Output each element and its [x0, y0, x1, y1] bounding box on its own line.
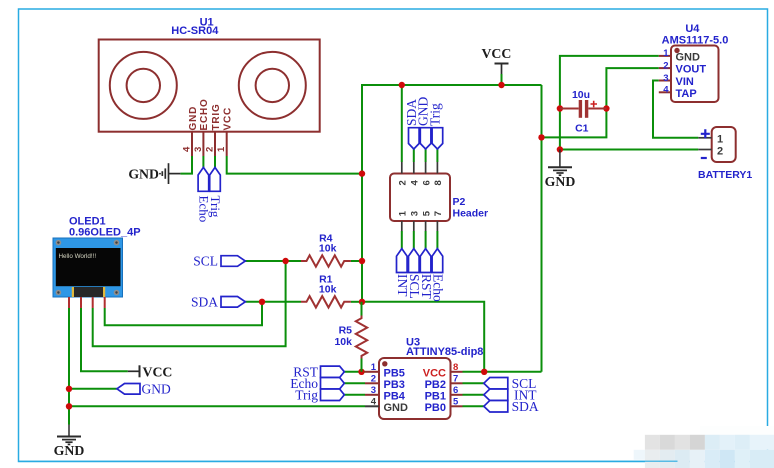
U1 left transducer — [110, 52, 177, 119]
OLED1 screen — [56, 248, 121, 286]
wire U4 pin3 VIN to battery plus — [653, 81, 698, 138]
U1 right transducer — [239, 52, 306, 119]
wire RST flag to U3 pin1 — [344, 371, 365, 373]
junction at bottom GND bus — [66, 403, 72, 409]
svg-text:1: 1 — [717, 133, 723, 145]
wire U1 ECHO pin stub — [202, 156, 204, 167]
P2 pin stub 1 — [401, 221, 403, 231]
wire VCC rail right vertical x=541.5 — [541, 85, 543, 372]
U3 pin stub 2 — [365, 382, 379, 384]
net flag GND above P2 — [416, 97, 431, 149]
svg-text:6: 6 — [421, 180, 432, 185]
svg-text:7: 7 — [453, 373, 458, 384]
svg-text:VCC: VCC — [223, 107, 234, 131]
wire VCC to U3 pin8 via x=484 — [362, 302, 484, 372]
U4 pin stub 2 — [659, 67, 671, 69]
svg-text:Trig: Trig — [295, 387, 318, 402]
svg-text:10k: 10k — [319, 243, 337, 255]
BATTERY1 minus sign — [701, 157, 707, 159]
BATTERY1 plus sign — [701, 129, 710, 138]
OLED1 module body — [53, 238, 123, 297]
svg-text:SCL: SCL — [193, 254, 218, 269]
resistor R1 — [301, 273, 351, 307]
svg-text:ATTINY85-dip8: ATTINY85-dip8 — [406, 346, 483, 358]
watermark mosaic bottom right (decorative) — [634, 426, 774, 468]
wire U3 pin8 row — [463, 371, 542, 373]
svg-text:1: 1 — [663, 48, 669, 59]
svg-text:Trig: Trig — [208, 196, 223, 218]
junction at R5 bottom / U3 pin1 — [358, 369, 364, 375]
U1 pin stub 3 — [202, 132, 204, 156]
svg-text:0.96OLED_4P: 0.96OLED_4P — [69, 227, 141, 239]
wire P2 pin2 to VCC rail — [401, 85, 403, 162]
svg-text:VIN: VIN — [676, 76, 694, 88]
wire SCL net vertical x=285.6 — [93, 261, 286, 346]
U4 body — [671, 46, 719, 103]
U1 pin stub 2 — [214, 132, 216, 156]
svg-text:3: 3 — [410, 211, 421, 216]
wire U1 VCC pin to VCC rail — [227, 156, 362, 174]
svg-text:Echo: Echo — [431, 274, 446, 302]
net flag RST at U3 pin1 — [293, 364, 344, 379]
svg-text:10k: 10k — [334, 336, 352, 348]
svg-text:PB4: PB4 — [384, 390, 406, 402]
svg-text:Header: Header — [453, 207, 489, 219]
svg-text:7: 7 — [433, 211, 444, 216]
svg-text:PB5: PB5 — [384, 367, 405, 379]
svg-text:10k: 10k — [319, 284, 337, 296]
net flag INT at U3 pin6 — [484, 387, 537, 402]
svg-text:8: 8 — [453, 362, 458, 373]
capacitor C1 10u polarized — [560, 89, 607, 135]
junction at SCL flag column — [282, 258, 288, 264]
net flag Echo below P2 — [431, 249, 446, 302]
U4 pin stub 4 — [659, 91, 671, 93]
svg-text:GND: GND — [676, 51, 701, 63]
OLED1 connector block — [74, 287, 103, 297]
net flag INT below P2 — [395, 249, 410, 298]
VCC power symbol near OLED — [128, 364, 173, 379]
U3 pin stub 7 — [451, 382, 463, 384]
wire U1 TRIG pin stub — [214, 156, 216, 167]
svg-text:VOUT: VOUT — [676, 64, 707, 76]
junction at P2 pin2 and VCC rail — [399, 82, 405, 88]
wire Echo flag to U3 pin2 — [344, 382, 365, 384]
C1 plus sign — [591, 101, 598, 108]
ground symbol bottom left — [57, 425, 81, 445]
svg-text:VCC: VCC — [143, 364, 173, 379]
wire SCL flag to R4 — [245, 260, 301, 262]
svg-text:R5: R5 — [339, 325, 353, 337]
net flag SDA above P2 — [404, 99, 419, 149]
svg-text:4: 4 — [410, 180, 421, 186]
svg-text:GND: GND — [54, 443, 85, 458]
wire P2 pin3 flag stub — [413, 231, 415, 249]
svg-text:TAP: TAP — [676, 88, 697, 100]
U4 pin stub 1 — [659, 55, 671, 57]
OLED1 pin stub 3 — [92, 297, 94, 308]
U3 pin stub 3 — [365, 394, 379, 396]
C1 right plate — [585, 100, 588, 118]
microcontroller U3 ATTINY85 — [365, 337, 483, 419]
svg-text:1: 1 — [371, 362, 377, 373]
svg-text:2: 2 — [717, 145, 723, 157]
U3 body — [379, 358, 451, 419]
svg-text:C1: C1 — [575, 123, 589, 135]
wire SDA flag to R1 — [245, 301, 301, 303]
P2 pin stub 8 — [436, 162, 438, 174]
svg-text:2: 2 — [398, 180, 409, 185]
junction at GND near C1 — [557, 146, 563, 152]
net flag Echo under U1 — [197, 167, 212, 222]
ground symbol near C1 — [548, 150, 572, 176]
net flag Echo at U3 pin2 — [290, 376, 344, 391]
junction at VCC symbol stem — [498, 82, 504, 88]
svg-text:OLED1: OLED1 — [69, 215, 106, 227]
OLED1 corner screws — [56, 240, 62, 246]
wire VCC power stem green part — [501, 74, 503, 85]
P2 pin stub 4 — [413, 162, 415, 174]
svg-text:P2: P2 — [453, 196, 466, 208]
bottom border segment visible through watermark — [19, 460, 678, 462]
U3 pin stub 5 — [451, 405, 463, 407]
OLED1 pin stub 4 — [104, 297, 106, 308]
svg-text:U4: U4 — [685, 23, 700, 35]
P2 pin stub 5 — [425, 221, 427, 231]
header P2 — [390, 162, 488, 231]
svg-text:BATTERY1: BATTERY1 — [698, 169, 752, 181]
net flag Trig above P2 — [427, 103, 442, 149]
junction at U1 VCC wire and VCC vertical — [359, 170, 365, 176]
net flag RST below P2 — [419, 249, 434, 300]
OLED1 pin stub 1 — [68, 297, 70, 308]
wire U3 pin6 to INT flag — [463, 394, 487, 396]
regulator U4 AMS1117-5.0 — [659, 23, 729, 102]
svg-text:GND: GND — [142, 381, 171, 396]
svg-text:2: 2 — [205, 147, 216, 152]
wire bottom GND bus to U3 pin4 — [69, 405, 365, 407]
wire P2 pin1 flag stub — [401, 231, 403, 249]
net flag SCL below P2 — [407, 249, 422, 299]
wire OLED pin2 to VCC symbol — [81, 308, 128, 371]
OLED1 display module — [53, 215, 141, 308]
junction at GND flag row — [66, 386, 72, 392]
junction at VOUT to VCC rail — [538, 134, 544, 140]
svg-text:2: 2 — [371, 373, 376, 384]
svg-text:10u: 10u — [572, 89, 590, 101]
U3 pin stub 4 — [365, 405, 379, 407]
BATTERY1 pin stub 2 — [698, 149, 711, 151]
wire U3 pin5 to SDA flag — [463, 405, 487, 407]
svg-text:SDA: SDA — [512, 399, 539, 414]
wire OLED pin1 to ground — [68, 308, 70, 425]
wire R1 to VCC vertical — [351, 301, 362, 303]
net flag SCL at U3 pin7 — [484, 376, 537, 391]
wire GND flag to OLED pin1 line — [69, 388, 117, 390]
svg-text:ECHO: ECHO — [199, 98, 210, 130]
wire U1 GND pin to ground — [180, 156, 192, 174]
svg-text:GND: GND — [545, 174, 576, 189]
svg-text:Hello World!!!: Hello World!!! — [59, 253, 97, 260]
svg-text:4: 4 — [371, 396, 377, 407]
U1 body — [99, 40, 320, 132]
svg-text:4: 4 — [663, 85, 669, 96]
ultrasonic sensor U1 HC-SR04 — [99, 16, 320, 156]
svg-text:VCC: VCC — [481, 46, 511, 61]
resistor R5 — [334, 302, 367, 372]
battery BATTERY1 — [698, 127, 752, 181]
U4 pin stub 3 — [659, 80, 671, 82]
junction at R1 right / R5 top — [359, 299, 365, 305]
P2 body — [390, 174, 450, 222]
svg-text:8: 8 — [433, 180, 444, 185]
U4 pin1 marker dot — [674, 48, 679, 53]
svg-text:TRIG: TRIG — [211, 103, 222, 130]
net flag SDA at U3 pin5 — [484, 399, 539, 414]
svg-text:VCC: VCC — [423, 367, 446, 379]
wire U3 pin7 to SCL flag — [463, 382, 487, 384]
svg-text:3: 3 — [663, 73, 668, 84]
wire R4 to VCC vertical — [351, 260, 362, 262]
net flag SCL left — [193, 254, 245, 269]
wire P2 pin8 flag stub — [436, 149, 438, 162]
junction at C1 right plate — [603, 105, 609, 111]
svg-text:PB1: PB1 — [425, 390, 446, 402]
C1 right lead — [588, 108, 606, 110]
svg-text:3: 3 — [193, 147, 204, 152]
svg-text:PB0: PB0 — [425, 402, 446, 414]
svg-text:GND: GND — [188, 106, 199, 131]
svg-text:6: 6 — [453, 385, 458, 396]
U3 pin stub 6 — [451, 394, 463, 396]
U1 pin stub 4 — [191, 132, 193, 156]
junction at C1 left plate — [557, 105, 563, 111]
wire Trig flag to U3 pin3 — [344, 394, 365, 396]
wire U4 pin1 GND to C1 left — [560, 56, 659, 150]
svg-text:1: 1 — [216, 146, 227, 152]
svg-text:5: 5 — [421, 210, 432, 216]
junction at R4 right — [359, 258, 365, 264]
VCC power symbol top — [481, 46, 511, 74]
junction at SDA flag column — [259, 299, 265, 305]
net flag GND near OLED — [117, 381, 171, 396]
U3 pin1 marker dot — [382, 361, 387, 366]
P2 pin stub 2 — [401, 162, 403, 174]
svg-text:Trig: Trig — [427, 103, 442, 126]
wire P2 pin5 flag stub — [425, 231, 427, 249]
wire U4 pin2 VOUT down x=606.4 — [542, 68, 659, 137]
svg-text:GND: GND — [384, 402, 409, 414]
wire P2 pin7 flag stub — [436, 231, 438, 249]
net flag SDA left — [191, 294, 245, 309]
wire VCC rail horizontal y=85 — [362, 85, 542, 302]
net flag Trig under U1 — [208, 167, 223, 218]
svg-text:HC-SR04: HC-SR04 — [171, 25, 219, 37]
svg-text:2: 2 — [663, 60, 668, 71]
wire battery minus to GND — [560, 149, 698, 151]
junction at U3 pin8 VCC — [481, 369, 487, 375]
OLED1 pin stub 2 — [80, 297, 82, 308]
BATTERY1 pin stub 1 — [698, 137, 711, 139]
C1 left plate — [579, 100, 582, 118]
svg-text:4: 4 — [182, 146, 193, 152]
P2 pin stub 3 — [413, 221, 415, 231]
svg-text:PB3: PB3 — [384, 379, 405, 391]
C1 left lead — [560, 108, 579, 110]
svg-text:3: 3 — [371, 385, 376, 396]
svg-text:PB2: PB2 — [425, 379, 446, 391]
resistor R4 — [301, 232, 351, 266]
svg-text:GND: GND — [128, 166, 159, 181]
svg-text:1: 1 — [398, 210, 409, 216]
U1 pin stub 1 — [226, 132, 228, 156]
wire P2 pin6 flag stub — [425, 149, 427, 162]
U3 pin stub 1 — [365, 371, 379, 373]
ground symbol left of U1 — [160, 163, 180, 184]
wire P2 pin4 flag stub — [413, 149, 415, 162]
U3 pin stub 8 — [451, 371, 463, 373]
wire SDA net vertical x=262 — [105, 302, 262, 325]
P2 pin stub 7 — [436, 221, 438, 231]
svg-text:SDA: SDA — [191, 294, 218, 309]
P2 pin stub 6 — [425, 162, 427, 174]
svg-text:5: 5 — [453, 396, 459, 407]
net flag Trig at U3 pin3 — [295, 387, 344, 402]
BATTERY1 body — [712, 127, 736, 162]
